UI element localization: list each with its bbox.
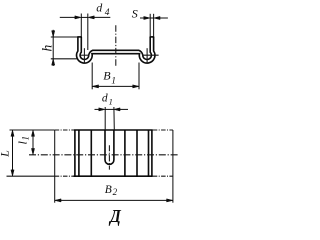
label l1 [16,136,31,145]
label B1 [103,69,116,87]
svg-text:4: 4 [105,8,110,18]
S extension line left [149,14,151,37]
dimension L [11,130,14,176]
dimension h [52,30,55,66]
label S [132,6,138,20]
right ear top edge [150,36,155,38]
label L [0,150,12,158]
d1 extension lines [105,107,114,130]
dimension d1 [95,108,129,111]
L extension lines [7,130,55,176]
B1 extension line left [91,63,93,90]
outer profile surface (front view, thick) [77,37,155,63]
svg-text:Д: Д [108,206,122,226]
h extension line bottom [51,58,78,60]
unfolded end outline right (thin) [153,130,173,203]
dimension l1 [31,130,34,155]
bend line 7 [151,130,153,176]
unfolded end outline left (thin) [55,130,74,203]
S extension line right [153,14,155,37]
centerline front view [115,25,117,66]
svg-text:1: 1 [20,136,30,141]
label d4 [96,1,110,19]
horizontal centerline plan [29,154,178,156]
svg-text:1: 1 [109,96,113,106]
label h [39,45,54,52]
dimension B2 [55,199,173,202]
h extension line top [51,36,78,38]
label d1 [102,93,113,107]
bend line 6 [148,130,150,176]
svg-text:2: 2 [113,187,118,197]
svg-text:d: d [102,93,108,105]
svg-text:B: B [103,69,111,83]
plan top edge thick [74,129,153,131]
dimension S [140,16,168,19]
vertical centerline slot [108,145,110,169]
bend line 2 [78,130,80,176]
right groove center mark cross (bar extends right past ear) [142,48,158,63]
dimension d4 [60,16,111,19]
label B2 [105,184,118,197]
svg-text:L: L [0,150,12,158]
d4 extension line left (ear inner wall extended) [80,14,82,37]
bend line 1 [74,130,76,176]
plan bottom edge thick [74,175,153,177]
svg-text:B: B [105,184,112,196]
left groove center mark cross [80,48,90,63]
slot outline [105,130,114,164]
svg-text:h: h [39,45,54,52]
B1 extension line right [138,63,140,90]
bend line 5 [136,130,138,176]
left ear top edge [77,36,82,38]
label type D [108,206,122,226]
bend line 4 [124,130,126,176]
bend line 3 [90,130,92,176]
svg-text:1: 1 [111,76,116,86]
dimension B1 [92,85,139,88]
d4 extension line right [87,14,89,51]
svg-text:S: S [132,6,138,20]
inner profile surface (front view, thick) [80,37,151,60]
svg-text:d: d [96,1,103,15]
